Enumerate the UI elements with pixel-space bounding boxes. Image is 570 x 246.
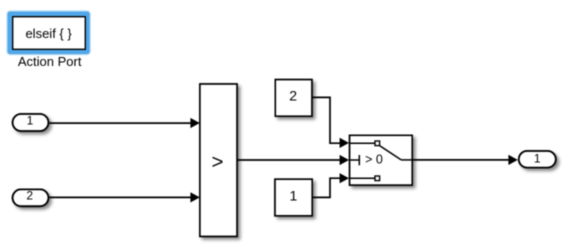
bottom port square xyxy=(375,176,380,181)
middle input stub xyxy=(350,159,359,161)
svg-text:> 0: > 0 xyxy=(365,153,383,167)
threshold tick xyxy=(358,155,360,165)
svg-text:2: 2 xyxy=(26,189,33,203)
constant 2 block xyxy=(275,80,312,117)
svg-text:2: 2 xyxy=(289,87,297,103)
arrowhead xyxy=(340,155,349,165)
constant 1 block xyxy=(275,179,312,216)
arrowhead xyxy=(190,192,199,202)
top port square xyxy=(375,141,380,146)
action port block body xyxy=(13,17,86,50)
arrowhead xyxy=(340,138,349,148)
wire constant1 to switch input3 xyxy=(313,178,340,197)
svg-text:elseif { }: elseif { } xyxy=(25,26,72,41)
svg-text:1: 1 xyxy=(534,152,541,166)
wire inport1 to relational xyxy=(50,122,192,124)
svg-text:1: 1 xyxy=(290,187,298,203)
relational operator block > xyxy=(200,84,237,236)
switch internals: top input stub xyxy=(350,142,375,144)
svg-text:Action Port: Action Port xyxy=(18,54,82,69)
arrowhead xyxy=(190,118,199,128)
outport 1 xyxy=(519,151,556,168)
wire constant2 to switch input1 xyxy=(312,97,340,143)
output stub xyxy=(401,159,412,161)
wire inport2 to relational xyxy=(50,196,192,198)
inport 2 xyxy=(13,189,49,206)
inport 1 xyxy=(13,114,49,131)
svg-text:>: > xyxy=(212,151,224,174)
action port block (elseif) selection highlight xyxy=(8,12,90,55)
switch diagonal lever xyxy=(380,146,401,160)
wire switch to outport xyxy=(413,159,510,161)
arrowhead xyxy=(508,155,517,165)
arrowhead xyxy=(340,173,349,183)
bottom input stub xyxy=(350,177,375,179)
svg-text:1: 1 xyxy=(27,114,34,128)
switch block xyxy=(350,135,413,185)
wire relational to switch xyxy=(238,159,340,161)
